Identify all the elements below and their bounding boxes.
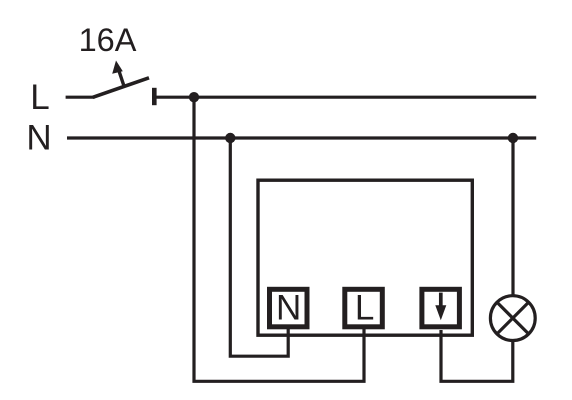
switch SW1 actuator arrowhead xyxy=(112,61,123,74)
wire L bus xyxy=(154,96,536,99)
terminal output box xyxy=(422,289,460,327)
terminal output arrowhead xyxy=(435,305,446,320)
switch SW1 actuator arrow shaft xyxy=(118,67,124,86)
lamp E1 circle xyxy=(490,296,535,341)
terminal output arrow shaft xyxy=(439,293,443,307)
lamp E1 cross stroke 1 xyxy=(497,302,529,334)
wire N bus to lamp top xyxy=(511,138,514,297)
svg-text:16A: 16A xyxy=(79,22,137,58)
junction on N bus xyxy=(225,133,235,143)
svg-text:L: L xyxy=(30,78,49,117)
junction on N bus at lamp xyxy=(508,133,518,143)
lamp E1 cross stroke 2 xyxy=(497,302,529,334)
wire N bus to terminal N xyxy=(230,138,288,356)
svg-text:N: N xyxy=(26,118,51,157)
switch SW1 fixed contact tick xyxy=(152,88,157,105)
device box (time switch unit) xyxy=(258,180,472,335)
wire N bus xyxy=(67,136,536,139)
junction on L bus xyxy=(189,92,199,102)
wire L bus to terminal L xyxy=(194,97,364,381)
terminal N box xyxy=(270,289,308,327)
wire lamp bottom to output terminal xyxy=(441,330,513,381)
svg-text:L: L xyxy=(355,289,374,328)
switch SW1 blade (16A breaker) xyxy=(93,78,149,98)
terminal L box xyxy=(345,289,383,327)
svg-text:N: N xyxy=(276,289,301,328)
wire L feed xyxy=(66,96,95,99)
